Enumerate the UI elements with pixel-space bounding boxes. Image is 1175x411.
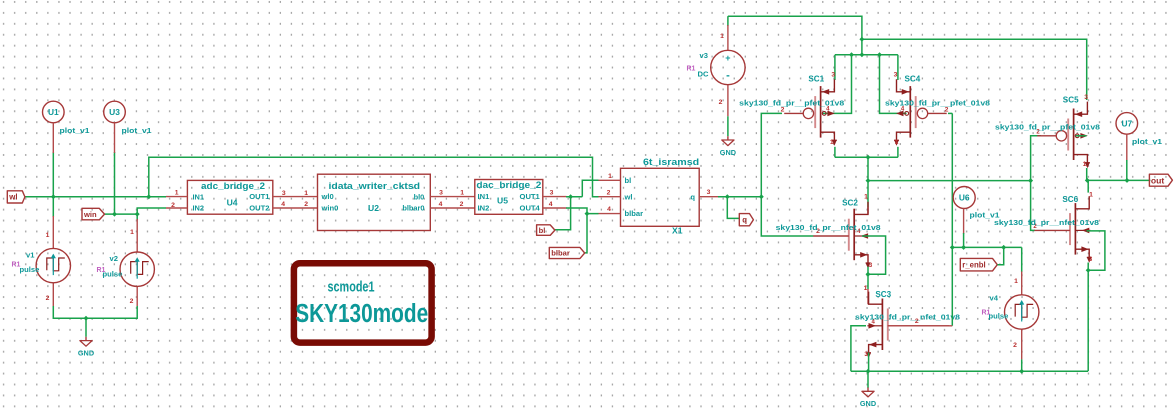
6t_isramsd X1 <box>621 168 700 226</box>
svg-text:1: 1 <box>1083 161 1087 168</box>
wire <box>727 116 729 136</box>
svg-text:R1: R1 <box>687 66 696 73</box>
svg-text:4: 4 <box>607 206 611 213</box>
svg-text:wl: wl <box>8 193 17 202</box>
svg-text:sky130_fd_pr__pfet_01v8: sky130_fd_pr__pfet_01v8 <box>885 99 990 108</box>
node out j1 <box>1085 178 1090 183</box>
svg-text:sky130_fd_pr__pfet_01v8: sky130_fd_pr__pfet_01v8 <box>995 123 1100 132</box>
svg-text:+: + <box>725 53 730 63</box>
source v3 <box>727 16 729 26</box>
wire <box>868 353 870 372</box>
svg-text:1: 1 <box>1089 192 1093 199</box>
label blbar <box>549 247 584 258</box>
svg-text:U4: U4 <box>227 198 238 208</box>
wire <box>582 180 598 196</box>
svg-text:scmode1: scmode1 <box>328 279 375 295</box>
svg-text:1: 1 <box>46 232 50 239</box>
svg-text:1: 1 <box>830 139 834 146</box>
wire <box>114 123 116 153</box>
wire <box>851 370 1088 372</box>
plot probe U1 <box>43 101 65 123</box>
wire <box>555 197 571 230</box>
node inv out j <box>866 178 871 183</box>
wire <box>585 214 587 253</box>
node wl junction riser <box>146 194 151 199</box>
svg-text:U5: U5 <box>497 195 508 205</box>
node q junction <box>725 194 730 199</box>
label q <box>739 214 753 226</box>
wire <box>52 152 54 197</box>
wire <box>52 123 54 153</box>
node vdd rail j1 <box>849 52 854 57</box>
node wl junction at v1 <box>51 194 56 199</box>
svg-text:3: 3 <box>894 72 898 79</box>
svg-text:SC2: SC2 <box>842 199 858 208</box>
wire <box>430 196 475 198</box>
svg-text:GND: GND <box>720 148 736 157</box>
wire <box>273 196 318 198</box>
svg-text:1: 1 <box>895 139 899 146</box>
wire <box>897 147 899 158</box>
svg-text:2: 2 <box>130 298 134 305</box>
wire <box>867 267 869 275</box>
svg-text:out: out <box>1151 175 1164 185</box>
wire <box>867 157 869 207</box>
svg-text:2: 2 <box>171 202 175 209</box>
wire <box>1076 135 1087 137</box>
svg-text:q: q <box>690 192 695 201</box>
svg-text:pulse: pulse <box>103 270 123 279</box>
svg-text:2: 2 <box>460 201 464 208</box>
wire <box>699 196 718 198</box>
wire <box>718 196 761 198</box>
svg-text:SC4: SC4 <box>905 75 921 84</box>
label win <box>82 208 105 220</box>
transistor SC6 sky130_fd_pr__nfet_01v8 <box>1074 203 1076 255</box>
wire <box>1087 263 1089 271</box>
svg-text:U1: U1 <box>48 107 59 117</box>
ground <box>727 136 729 140</box>
svg-text:OUT1: OUT1 <box>249 192 270 201</box>
wire <box>1031 181 1035 231</box>
idata_writer_cktsd U2 <box>318 174 431 230</box>
svg-text:q: q <box>742 216 747 225</box>
wire <box>834 55 836 80</box>
svg-text:v2: v2 <box>110 254 118 263</box>
wire <box>835 156 898 158</box>
wire <box>1087 179 1151 181</box>
node gnd rail j2 <box>1019 369 1024 374</box>
node gnd rail j1 <box>866 369 871 374</box>
svg-text:3: 3 <box>282 190 286 197</box>
wire <box>951 113 953 325</box>
wire <box>727 197 739 219</box>
svg-text:blbar: blbar <box>551 249 570 258</box>
svg-text:dac_bridge_2: dac_bridge_2 <box>476 180 541 190</box>
wire <box>834 147 836 158</box>
wire <box>273 207 318 209</box>
svg-text:U2: U2 <box>368 203 379 213</box>
ground <box>85 337 87 341</box>
wire <box>25 196 166 198</box>
node dac out1 junction <box>568 194 573 199</box>
svg-text:3: 3 <box>550 189 554 196</box>
label bl <box>537 225 555 236</box>
svg-text:win0: win0 <box>321 204 339 213</box>
node r_enbl j3 <box>1001 245 1006 250</box>
svg-text:2: 2 <box>304 201 308 208</box>
wire <box>52 197 54 217</box>
label r_enbl <box>960 258 997 271</box>
wire <box>430 207 475 209</box>
wire <box>862 236 886 274</box>
svg-text:pulse: pulse <box>20 265 40 274</box>
node q net T <box>759 194 764 199</box>
node r_enbl j1 <box>950 245 955 250</box>
svg-text:SC1: SC1 <box>808 75 824 84</box>
wire <box>897 55 899 80</box>
svg-text:wl0: wl0 <box>321 192 334 201</box>
plot probe U7 <box>1116 113 1138 135</box>
svg-text:win: win <box>83 210 97 219</box>
wire <box>166 207 187 209</box>
svg-text:v3: v3 <box>700 51 708 60</box>
svg-text:blbar: blbar <box>625 209 644 218</box>
wire <box>85 318 87 337</box>
svg-text:IN2: IN2 <box>193 204 205 213</box>
wire <box>599 179 621 181</box>
wire <box>599 196 621 198</box>
svg-text:IN2: IN2 <box>478 204 490 213</box>
node out j2 U7 <box>1125 178 1130 183</box>
svg-text:-: - <box>726 70 730 82</box>
svg-text:1: 1 <box>304 190 308 197</box>
svg-text:1: 1 <box>864 285 868 292</box>
svg-text:bl0: bl0 <box>414 192 425 201</box>
label wl <box>7 191 25 203</box>
adc_bridge_2 U4 <box>187 180 272 214</box>
wire <box>862 39 1087 100</box>
wire <box>952 246 1021 248</box>
transistor SC3 sky130_fd_pr__nfet_01v8 <box>867 289 869 304</box>
node SC2 source j <box>866 272 871 277</box>
svg-text:3: 3 <box>439 189 443 196</box>
wire <box>867 371 869 388</box>
svg-text:plot_v1: plot_v1 <box>122 126 152 135</box>
node vdd rail j3 <box>877 52 882 57</box>
node blbar junction <box>585 211 590 216</box>
transistor SC1 sky130_fd_pr__pfet_01v8 <box>820 86 822 138</box>
svg-text:1: 1 <box>864 194 868 201</box>
wire <box>868 180 1031 182</box>
node vdd rail j2 <box>859 52 864 57</box>
svg-text:plot_v1: plot_v1 <box>60 126 90 135</box>
svg-text:GND: GND <box>78 348 94 357</box>
wire <box>1021 359 1023 371</box>
plot probe U6 <box>953 187 975 209</box>
svg-text:1: 1 <box>608 173 612 180</box>
svg-text:idata_writer_cktsd: idata_writer_cktsd <box>329 181 421 191</box>
svg-text:DC: DC <box>698 70 709 79</box>
wire <box>114 152 116 214</box>
svg-text:GND: GND <box>860 399 876 408</box>
svg-text:3: 3 <box>707 189 711 196</box>
svg-text:SKY130mode: SKY130mode <box>295 300 428 328</box>
wire <box>166 196 187 198</box>
wire <box>543 207 567 209</box>
wire <box>136 214 138 220</box>
svg-text:SC5: SC5 <box>1063 96 1079 105</box>
svg-text:4: 4 <box>281 201 285 208</box>
svg-text:U7: U7 <box>1121 118 1132 128</box>
node win junction U3 <box>112 212 117 217</box>
wire <box>761 113 782 196</box>
svg-text:v4: v4 <box>990 294 999 303</box>
svg-text:OUT2: OUT2 <box>249 204 269 213</box>
svg-text:1: 1 <box>720 33 724 40</box>
svg-text:r_enbl: r_enbl <box>962 261 985 270</box>
svg-text:6t_isramsd: 6t_isramsd <box>643 157 699 167</box>
wire <box>566 208 599 214</box>
svg-text:2: 2 <box>719 99 723 106</box>
source v4 <box>1021 247 1023 272</box>
transistor SC4 sky130_fd_pr__pfet_01v8 <box>909 86 911 138</box>
annotation scmode1 SKY130mode box <box>294 263 432 342</box>
wire <box>851 326 866 371</box>
wire <box>566 196 582 198</box>
wire <box>137 208 166 214</box>
wire <box>888 325 953 327</box>
svg-text:3: 3 <box>831 72 835 79</box>
wire <box>1087 180 1089 192</box>
node win junction v2 <box>135 212 140 217</box>
wire <box>823 55 852 114</box>
wire <box>948 112 952 114</box>
svg-text:sky130_fd_pr__nfet_01v8: sky130_fd_pr__nfet_01v8 <box>776 223 881 232</box>
svg-text:sky130_fd_pr__nfet_01v8: sky130_fd_pr__nfet_01v8 <box>994 218 1099 227</box>
wire <box>728 16 862 55</box>
wire <box>1031 136 1041 181</box>
node sc5 gate T <box>1028 178 1033 183</box>
wire <box>105 213 138 215</box>
svg-text:IN1: IN1 <box>478 192 491 201</box>
svg-text:1: 1 <box>130 229 134 236</box>
wire <box>1087 231 1105 270</box>
svg-text:U6: U6 <box>959 193 970 203</box>
svg-text:U3: U3 <box>109 107 120 117</box>
svg-text:OUT1: OUT1 <box>520 192 541 201</box>
svg-text:blbar0: blbar0 <box>402 204 424 213</box>
svg-text:sky130_fd_pr__pfet_01v8: sky130_fd_pr__pfet_01v8 <box>739 99 844 108</box>
svg-text:3: 3 <box>1084 94 1088 101</box>
svg-text:4: 4 <box>549 201 553 208</box>
svg-text:v1: v1 <box>26 251 35 260</box>
wire <box>963 233 965 247</box>
svg-text:OUT4: OUT4 <box>520 204 541 213</box>
wire <box>1086 168 1088 180</box>
wire <box>149 157 599 196</box>
svg-text:2: 2 <box>1013 342 1017 349</box>
svg-text:pulse: pulse <box>989 312 1009 321</box>
wire <box>761 197 813 236</box>
wire <box>880 55 907 114</box>
svg-text:wl: wl <box>624 192 633 201</box>
node gnd rail junction <box>84 316 89 321</box>
plot probe U3 <box>104 101 126 123</box>
svg-text:X1: X1 <box>672 226 683 236</box>
svg-text:bl: bl <box>625 176 632 185</box>
wire <box>1126 160 1128 180</box>
svg-text:1: 1 <box>460 189 464 196</box>
wire <box>543 196 567 198</box>
wire <box>53 306 137 318</box>
svg-text:2: 2 <box>46 295 50 302</box>
svg-text:1: 1 <box>175 189 179 196</box>
svg-text:SC3: SC3 <box>875 290 891 299</box>
wire <box>1087 270 1089 371</box>
svg-text:IN1: IN1 <box>193 192 205 201</box>
svg-text:SC6: SC6 <box>1062 195 1078 204</box>
node r_enbl j2 <box>961 245 966 250</box>
svg-text:1: 1 <box>1014 278 1018 285</box>
svg-text:bl: bl <box>539 226 546 235</box>
transistor SC2 sky130_fd_pr__nfet_01v8 <box>867 207 869 214</box>
svg-text:2: 2 <box>607 189 611 196</box>
wire <box>867 274 869 289</box>
svg-text:plot_v1: plot_v1 <box>1132 137 1162 146</box>
dac_bridge_2 U5 <box>475 180 543 215</box>
wire <box>835 54 898 56</box>
transistor SC5 sky130_fd_pr__pfet_01v8 <box>1073 109 1075 161</box>
wire <box>599 213 621 215</box>
svg-text:4: 4 <box>439 201 443 208</box>
wire <box>998 247 1004 264</box>
label out <box>1149 174 1172 186</box>
svg-text:sky130_fd_pr__nfet_01v8: sky130_fd_pr__nfet_01v8 <box>855 313 960 322</box>
node vdd T <box>859 37 864 42</box>
svg-text:adc_bridge_2: adc_bridge_2 <box>201 181 265 191</box>
node source rail j <box>866 155 871 160</box>
node sc6 source j <box>1086 268 1091 273</box>
ground <box>867 388 869 392</box>
source v1 <box>52 216 54 248</box>
source v2 <box>136 219 138 252</box>
